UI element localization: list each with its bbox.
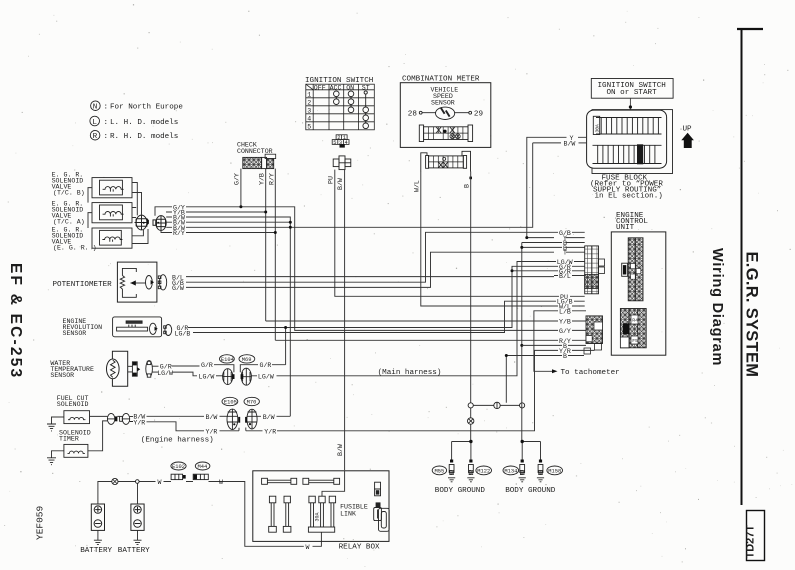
svg-text:(T/C. B): (T/C. B) [53,190,85,197]
junction Y at ECU row [525,236,528,239]
junction body ground 1 [469,440,472,443]
svg-text:B: B [463,184,470,188]
wire ignition switch to fuse block [629,98,631,110]
svg-text:4: 4 [307,116,311,123]
svg-text:M158: M158 [548,469,561,475]
ignition switch harness connector [333,156,351,170]
solenoid valve wire labels [173,204,185,237]
wires solenoid valves to connector [88,183,172,244]
water temperature sensor label [50,360,94,379]
ECU connector strip lower [620,309,646,348]
potentiometer resistor and wiper [120,268,154,297]
svg-text:R/Y: R/Y [268,173,275,185]
wire Y fuse block to ECU [527,137,587,237]
connector M69 body [241,368,252,385]
svg-text:SOLENOID: SOLENOID [57,401,89,408]
up direction arrow [681,126,694,149]
solenoid timer [64,444,88,457]
connector code oval M70 [244,397,259,405]
svg-text:Y/B: Y/B [559,319,571,326]
fuel cut solenoid ground [47,417,64,431]
ECU row label stubs [554,232,595,355]
svg-text:B/W: B/W [206,414,218,421]
battery feed wire W [98,482,304,547]
svg-text:EF & EC-253: EF & EC-253 [7,263,24,379]
junction B row17 [520,344,523,347]
svg-text:TD27T: TD27T [745,525,757,559]
junction Y/B [264,211,267,214]
fuse 7.5A dark [637,144,643,164]
fuse 30A top-left [593,116,600,134]
svg-text:(E. G. R. ): (E. G. R. ) [53,244,97,251]
svg-text:G/W: G/W [172,285,184,292]
connector M70 body [245,409,257,429]
fuse block rounded case [587,110,667,168]
svg-text:G/R: G/R [260,362,272,369]
svg-text:SENSOR: SENSOR [431,99,455,106]
svg-text:5: 5 [307,124,311,131]
ECU wire row labels [557,230,573,360]
battery 2 tap connector [136,480,140,484]
junction G/R rows [511,269,514,272]
svg-text:4: 4 [345,140,348,146]
page code box TD27T [745,511,765,561]
svg-text:L. H. D. models: L. H. D. models [110,119,178,127]
svg-text:M70: M70 [247,400,257,406]
vehicle speed sensor symbol [419,107,471,119]
svg-text:RELAY BOX: RELAY BOX [339,544,380,552]
solenoid timer output wire [88,421,108,451]
connector code oval M69 [239,355,255,363]
inline connector on tie wire [494,402,500,408]
junction G/Y [239,205,242,208]
svg-text:LG/W: LG/W [199,373,215,380]
svg-text:(Engine harness): (Engine harness) [141,437,214,445]
svg-text:5: 5 [333,140,336,146]
relay link vertical 1 [269,496,277,532]
engine revolution sensor [113,317,162,337]
engine revolution sensor connector [164,325,172,336]
svg-text:Wiring Diagram: Wiring Diagram [709,248,725,366]
connector E104 body [223,369,235,385]
relay box [253,471,389,542]
svg-text:M69: M69 [242,357,252,363]
EGR solenoid valve (T/C,A) label [52,201,85,226]
wire B/W solenoid bundle [186,143,561,416]
svg-text:M122: M122 [477,469,490,475]
svg-text:YEF059: YEF059 [35,505,46,540]
svg-text:BATTERY: BATTERY [80,547,112,555]
svg-text:B/W: B/W [263,414,275,421]
solenoid timer label [59,430,91,443]
ECU harness pin column lower [584,316,603,354]
potentiometer wire labels [172,275,184,292]
svg-text::: : [104,133,109,141]
connector code oval E102 [171,462,186,470]
ignition switch contact table [306,84,375,130]
svg-text:ON: ON [346,84,354,91]
wire B combination meter to ground [470,171,472,441]
svg-text:3: 3 [307,108,311,115]
fuse row top [596,118,662,135]
EGR solenoid valve (T/C,B) [92,178,132,198]
svg-text:BATTERY: BATTERY [118,547,150,555]
connector code oval M122 [476,466,492,475]
svg-text:B/W: B/W [337,444,344,456]
svg-text:OFF: OFF [314,84,326,91]
EGR solenoid valve (EGR) label [52,226,97,251]
fuse row bottom [593,145,662,163]
svg-text:(Main harness): (Main harness) [378,369,442,377]
wire B ECU to body ground [522,243,562,442]
svg-text:L/B: L/B [559,308,571,315]
svg-text:W: W [219,479,223,486]
legend note N For North Europe [91,101,184,112]
connector code oval M134 [503,466,519,475]
battery 2 [131,504,144,530]
junction R/Y [274,231,277,234]
svg-text:R: R [93,133,98,141]
wire G/R engine revolution sensor to ECU [188,266,554,327]
junction G/R water to engine rev [284,326,287,329]
junction B/W bundle [289,221,292,224]
svg-text:LG/B: LG/B [175,330,191,337]
fuel cut solenoid [64,411,90,424]
svg-text:E.G.R. SYSTEM: E.G.R. SYSTEM [743,252,761,378]
EGR solenoid valve (T/C,B) label [52,172,85,197]
svg-text:TIMER: TIMER [59,436,79,443]
svg-text:G/Y: G/Y [234,173,241,185]
body ground terminal M134 side [519,460,526,482]
tie wire end connector [520,403,525,408]
connector code oval E104 [220,355,235,363]
combination meter internal connector [419,125,472,142]
connector code oval M44 [195,462,210,470]
svg-text:W: W [158,479,162,486]
vehicle speed sensor label [431,87,459,107]
svg-text:F5: F5 [632,338,638,344]
relay link horizontal 1 [262,478,297,484]
svg-text:LG/W: LG/W [258,373,274,380]
svg-text:B: B [563,353,567,360]
fusible link 30A bottom bar [308,527,334,532]
svg-text:M44: M44 [198,464,208,470]
svg-text:ACC: ACC [330,84,342,91]
svg-text:BODY GROUND: BODY GROUND [505,487,556,495]
svg-text:G/Y: G/Y [559,328,571,335]
connector E105 body [227,409,240,429]
svg-text:Y: Y [570,135,574,142]
solenoid valve connector pair [135,215,167,230]
wire B/W fuel cut chain [90,415,205,417]
fusible link label [340,504,368,518]
svg-text:2: 2 [307,100,311,107]
fuel cut solenoid label [57,395,89,408]
combination meter harness connector [421,151,472,179]
wire G/W potentiometer to ECU [186,252,554,287]
svg-text:LINK: LINK [340,510,356,517]
battery 1 [91,504,104,530]
svg-text:LG/W: LG/W [157,370,173,377]
body ground terminal M122 side [467,460,474,482]
fuse block caption [590,174,663,200]
wire G/B potentiometer to ECU [186,232,554,282]
body ground group 1 wires [452,442,471,460]
engine revolution sensor label [63,318,103,337]
svg-text:To tachometer: To tachometer [561,369,620,377]
relay link horizontal 2 [303,478,340,484]
body ground terminal M55 side [448,460,455,482]
fuel cut solenoid connectors [107,413,133,424]
svg-text:B/W: B/W [337,178,344,190]
wire LG/B engine revolution sensor to ECU [193,301,554,332]
junction at fuse block feed [629,105,632,108]
wire Y/B solenoid to ECU [186,169,554,321]
svg-text:N: N [93,104,98,112]
svg-text:in EL section.): in EL section.) [595,192,663,200]
wire B/W into fusible link [322,471,345,496]
ECU upper connector lock tab [622,263,628,276]
svg-text:UNIT: UNIT [616,224,635,232]
EGR solenoid valve (EGR) [92,228,132,248]
svg-text:M134: M134 [504,469,517,475]
svg-text:29: 29 [474,111,484,119]
svg-text:CONNECTOR: CONNECTOR [237,148,273,155]
connector code oval M55 [432,466,446,475]
inline connector on B wire [468,403,473,408]
ECU harness pin column upper [585,246,605,294]
svg-text::: : [104,119,109,127]
svg-text:1: 1 [307,92,311,99]
svg-text:PU: PU [327,176,334,184]
svg-text:G/R: G/R [201,362,213,369]
junction body ground 2 [521,440,524,443]
water temperature sensor pins [128,361,159,378]
relay link vertical 2 [283,496,291,532]
ground tie wire [473,404,519,406]
wire G/Y check connector drop [240,169,242,207]
ignition switch connector pin numbers 2 1 / 5 3 4 [332,135,349,148]
wire LG/W water temp sensor chain [173,372,198,376]
fuse block outer housing [592,110,673,174]
wire B ECU to tie line [506,356,562,403]
ignition switch ON or START box [591,79,673,99]
svg-text:R4: R4 [632,318,638,324]
svg-text:W/L: W/L [414,180,421,192]
svg-text:W: W [306,544,310,551]
legend note L LHD models [90,116,178,127]
connector M44 plug [193,474,208,479]
svg-text:Y/R: Y/R [206,428,218,435]
wire PU ignition switch to ECU [335,170,554,297]
legend note R RHD models [90,130,178,141]
combination meter box [400,83,491,148]
fusible link 30A leg 3 [329,496,335,527]
wire R/Y solenoid to ECU [186,169,554,341]
ignition switch contact circles [334,91,369,129]
svg-text:T: T [563,250,567,257]
junction B row4 [520,246,523,249]
battery 1 ground [94,530,102,544]
fusible link symbol on battery wire [112,478,118,484]
svg-text:(T/C. A): (T/C. A) [53,219,85,226]
svg-text:R. H. D. models: R. H. D. models [110,133,178,141]
wire Y/R fuel cut chain [147,422,205,431]
svg-text:Y/B: Y/B [259,173,266,185]
svg-text:Y/R: Y/R [264,428,276,435]
battery 2 ground [134,530,142,544]
svg-text:M55: M55 [435,469,445,475]
svg-text:30A: 30A [594,124,600,133]
svg-text:ST: ST [362,84,370,91]
wire B/L potentiometer to ECU [186,276,554,278]
svg-text:SENSOR: SENSOR [50,372,74,379]
svg-text:R/Y: R/Y [173,230,185,237]
svg-text:B/L: B/L [559,273,571,280]
wire B/W ignition switch to relay box [344,170,346,471]
fusible link connector symbol [375,482,381,496]
svg-text:E105: E105 [224,400,237,406]
svg-text:E104: E104 [221,357,234,363]
fusible link 30A leg 2 [319,496,325,527]
body ground group 2 wires [522,442,540,460]
wire Y/R fuel cut to ECU [277,350,554,430]
svg-text:For North Europe: For North Europe [110,104,183,112]
svg-text:BODY GROUND: BODY GROUND [435,487,486,495]
junction B row19 [505,354,508,357]
potentiometer harness connector [158,275,166,290]
svg-text:ON or START: ON or START [607,89,658,97]
svg-text:UP: UP [683,126,693,134]
wire G/Y solenoid to ECU [186,207,554,331]
svg-text:E102: E102 [172,464,185,470]
connector E102 plug [171,474,186,479]
connector code oval M158 [547,466,563,475]
svg-text:POTENTIOMETER: POTENTIOMETER [53,281,113,289]
svg-text:30A: 30A [314,512,320,521]
wire W/L combination meter to ECU [421,171,554,306]
water temperature sensor [107,351,128,386]
wire G/R water temp sensor chain [172,365,200,367]
svg-text:L: L [92,119,97,127]
fusible link holder [374,502,390,531]
engine control unit box U1 [611,232,666,355]
potentiometer box [117,262,156,302]
ECU connector strip upper [628,238,643,301]
ECU lower connector lock tab [623,323,629,334]
page frame right rule [737,29,763,505]
svg-text::: : [104,104,109,112]
engine control unit label [616,212,648,232]
svg-text:SENSOR: SENSOR [63,330,87,337]
wire L/B to tachometer [534,311,554,372]
svg-text:28: 28 [408,111,418,119]
check connector block [243,154,276,168]
connector code oval E105 [222,397,238,405]
solenoid timer ground [47,451,64,465]
body ground terminal M158 side [537,460,544,482]
EGR solenoid valve (T/C,A) [92,203,132,223]
fusible link 30A leg 1 [309,496,315,527]
svg-text:Y/R: Y/R [133,420,145,427]
tachometer arrow [552,369,558,373]
fusible link symbol on B wire [468,418,474,424]
